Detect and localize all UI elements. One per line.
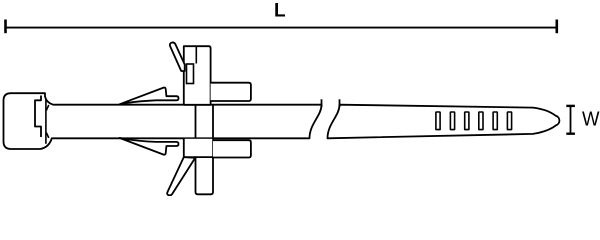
head right wall inner line xyxy=(45,99,47,144)
mount lower blade xyxy=(167,157,195,195)
svg-text:L: L xyxy=(274,1,286,22)
dimension W xyxy=(566,106,575,134)
mount shaft through strap xyxy=(196,105,214,195)
upper wing xyxy=(120,87,179,104)
serration slot 2 xyxy=(450,112,454,130)
serration slot 1 xyxy=(436,112,440,130)
head pawl tick top xyxy=(46,105,49,111)
mount lower fin xyxy=(213,140,251,157)
serration slot 3 xyxy=(465,112,469,130)
head inner slot bracket xyxy=(35,96,41,138)
mount upper post xyxy=(184,46,211,105)
head and left strap outline (up to break) xyxy=(4,93,322,149)
mount upper fin xyxy=(211,83,251,101)
mount upper blade xyxy=(170,42,185,71)
serration slot 5 xyxy=(493,112,497,130)
lower wing xyxy=(120,138,179,155)
svg-text:W: W xyxy=(582,109,600,131)
mount lower wide stub xyxy=(185,139,213,157)
mount post slot xyxy=(187,64,194,84)
serration slot 6 xyxy=(507,112,511,130)
break line top extension right xyxy=(339,99,341,107)
right strap piece with tapered tip xyxy=(328,105,560,139)
serration slot 4 xyxy=(479,112,483,130)
mount post inner step line xyxy=(195,47,197,64)
head pawl tick bottom xyxy=(46,133,49,138)
dimension line L xyxy=(6,20,557,34)
break line top extension left xyxy=(321,99,323,107)
